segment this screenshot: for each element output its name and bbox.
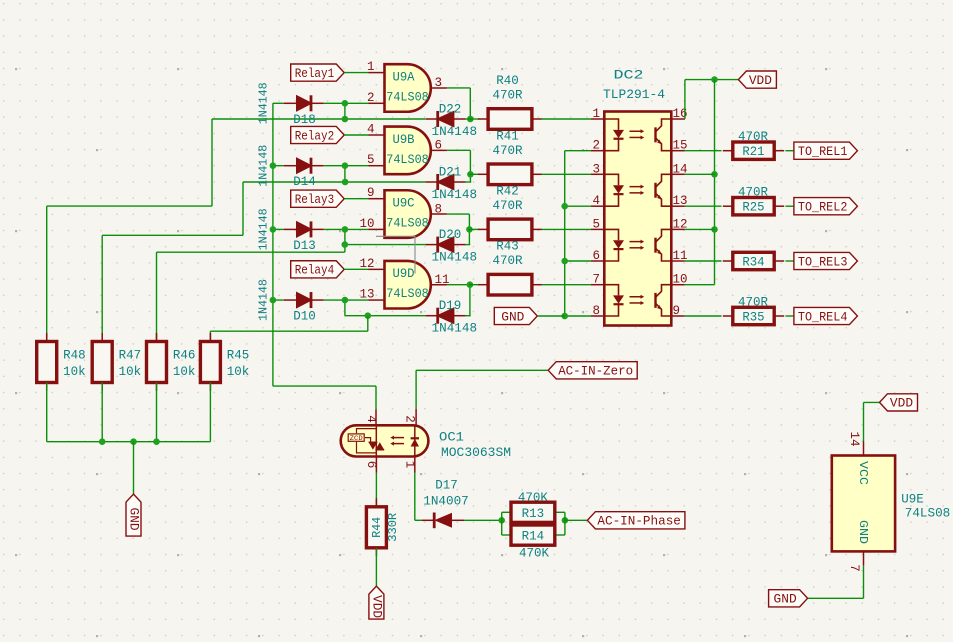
svg-text:R42: R42 bbox=[496, 184, 519, 198]
svg-text:1N4148: 1N4148 bbox=[257, 82, 271, 124]
svg-text:1N4148: 1N4148 bbox=[432, 251, 478, 265]
svg-text:VDD: VDD bbox=[890, 397, 913, 411]
svg-text:470R: 470R bbox=[493, 199, 523, 213]
svg-text:12: 12 bbox=[359, 257, 374, 271]
svg-text:R40: R40 bbox=[496, 74, 519, 88]
svg-text:8: 8 bbox=[592, 304, 600, 318]
svg-text:D17: D17 bbox=[435, 479, 458, 493]
svg-text:13: 13 bbox=[359, 288, 374, 302]
svg-text:1: 1 bbox=[592, 107, 600, 121]
svg-text:U9D: U9D bbox=[393, 267, 415, 281]
svg-text:11: 11 bbox=[435, 273, 450, 287]
svg-text:ZCD: ZCD bbox=[350, 435, 363, 443]
svg-text:14: 14 bbox=[847, 431, 861, 446]
svg-text:D10: D10 bbox=[293, 310, 316, 324]
svg-text:7: 7 bbox=[592, 273, 600, 287]
svg-text:3: 3 bbox=[592, 162, 600, 176]
svg-text:4: 4 bbox=[367, 123, 375, 137]
svg-text:10: 10 bbox=[359, 217, 374, 231]
svg-text:1N4148: 1N4148 bbox=[432, 125, 478, 139]
svg-text:OC1: OC1 bbox=[439, 431, 464, 445]
svg-text:1N4148: 1N4148 bbox=[432, 188, 478, 202]
svg-text:R44: R44 bbox=[370, 517, 384, 538]
svg-text:DC2: DC2 bbox=[614, 69, 644, 83]
svg-text:R35: R35 bbox=[742, 310, 764, 324]
svg-text:R46: R46 bbox=[173, 349, 196, 363]
svg-text:D19: D19 bbox=[439, 299, 462, 313]
svg-text:R48: R48 bbox=[63, 349, 86, 363]
svg-text:6: 6 bbox=[435, 139, 443, 153]
svg-text:470R: 470R bbox=[493, 144, 523, 158]
svg-text:R47: R47 bbox=[119, 349, 142, 363]
svg-text:Relay1: Relay1 bbox=[295, 67, 335, 81]
svg-text:TO_REL4: TO_REL4 bbox=[798, 310, 848, 324]
svg-text:AC-IN-Zero: AC-IN-Zero bbox=[558, 365, 633, 379]
svg-text:470R: 470R bbox=[738, 295, 768, 309]
svg-text:10k: 10k bbox=[173, 365, 196, 379]
svg-text:3: 3 bbox=[435, 76, 443, 90]
svg-text:1N4007: 1N4007 bbox=[423, 495, 469, 509]
svg-text:U9A: U9A bbox=[393, 70, 415, 84]
svg-text:5: 5 bbox=[592, 217, 600, 231]
svg-text:9: 9 bbox=[367, 186, 375, 200]
svg-text:5: 5 bbox=[367, 153, 375, 167]
svg-text:10k: 10k bbox=[227, 365, 250, 379]
svg-text:470K: 470K bbox=[519, 547, 549, 561]
svg-text:R14: R14 bbox=[522, 530, 545, 544]
svg-text:TO_REL2: TO_REL2 bbox=[798, 201, 848, 215]
svg-text:1N4148: 1N4148 bbox=[257, 279, 271, 321]
svg-text:R34: R34 bbox=[742, 255, 764, 269]
svg-text:R21: R21 bbox=[742, 145, 764, 159]
svg-text:2: 2 bbox=[592, 139, 600, 153]
svg-text:VDD: VDD bbox=[369, 595, 383, 618]
svg-text:470R: 470R bbox=[738, 186, 768, 200]
svg-text:Relay2: Relay2 bbox=[295, 129, 335, 143]
svg-text:D22: D22 bbox=[439, 103, 462, 117]
svg-text:470R: 470R bbox=[493, 89, 523, 103]
svg-text:D20: D20 bbox=[439, 228, 462, 242]
svg-text:U9C: U9C bbox=[393, 197, 415, 211]
svg-text:2: 2 bbox=[403, 415, 417, 423]
svg-text:74LS08: 74LS08 bbox=[905, 507, 951, 521]
svg-text:470R: 470R bbox=[738, 130, 768, 144]
svg-text:D21: D21 bbox=[439, 166, 462, 180]
svg-text:7: 7 bbox=[847, 564, 861, 572]
svg-text:R41: R41 bbox=[496, 129, 519, 143]
svg-text:4: 4 bbox=[364, 415, 378, 423]
svg-text:470R: 470R bbox=[493, 254, 523, 268]
svg-text:Relay4: Relay4 bbox=[295, 264, 335, 278]
svg-text:1N4148: 1N4148 bbox=[432, 322, 478, 336]
svg-text:1N4148: 1N4148 bbox=[257, 145, 271, 187]
svg-text:10k: 10k bbox=[63, 365, 86, 379]
svg-text:1: 1 bbox=[367, 60, 375, 74]
svg-text:VCC: VCC bbox=[856, 461, 870, 485]
svg-text:D13: D13 bbox=[293, 239, 316, 253]
svg-text:TO_REL1: TO_REL1 bbox=[798, 145, 848, 159]
svg-text:10k: 10k bbox=[119, 365, 142, 379]
svg-text:R43: R43 bbox=[496, 240, 519, 254]
svg-text:TLP291-4: TLP291-4 bbox=[603, 88, 665, 102]
svg-text:GND: GND bbox=[501, 310, 524, 324]
svg-text:VDD: VDD bbox=[749, 74, 772, 88]
svg-text:R13: R13 bbox=[522, 507, 545, 521]
svg-text:1N4148: 1N4148 bbox=[257, 208, 271, 250]
svg-text:R45: R45 bbox=[227, 349, 250, 363]
svg-text:D18: D18 bbox=[293, 113, 316, 127]
svg-text:U9B: U9B bbox=[393, 133, 415, 147]
svg-text:GND: GND bbox=[127, 508, 141, 531]
svg-text:R25: R25 bbox=[742, 201, 764, 215]
svg-text:GND: GND bbox=[774, 593, 797, 607]
svg-text:4: 4 bbox=[592, 194, 600, 208]
svg-text:6: 6 bbox=[592, 249, 600, 263]
svg-text:MOC3063SM: MOC3063SM bbox=[441, 446, 511, 460]
svg-text:470K: 470K bbox=[518, 491, 548, 505]
svg-text:8: 8 bbox=[435, 202, 443, 216]
svg-text:Relay3: Relay3 bbox=[295, 193, 335, 207]
svg-text:74LS08: 74LS08 bbox=[386, 217, 429, 231]
svg-text:U9E: U9E bbox=[901, 493, 924, 507]
svg-text:D14: D14 bbox=[293, 175, 316, 189]
svg-text:2: 2 bbox=[367, 91, 375, 105]
svg-text:330R: 330R bbox=[386, 513, 400, 542]
svg-text:74LS08: 74LS08 bbox=[386, 287, 429, 301]
svg-text:AC-IN-Phase: AC-IN-Phase bbox=[597, 515, 681, 529]
svg-text:TO_REL3: TO_REL3 bbox=[798, 255, 848, 269]
svg-text:GND: GND bbox=[856, 520, 870, 544]
svg-text:74LS08: 74LS08 bbox=[386, 90, 429, 104]
svg-text:74LS08: 74LS08 bbox=[386, 153, 429, 167]
